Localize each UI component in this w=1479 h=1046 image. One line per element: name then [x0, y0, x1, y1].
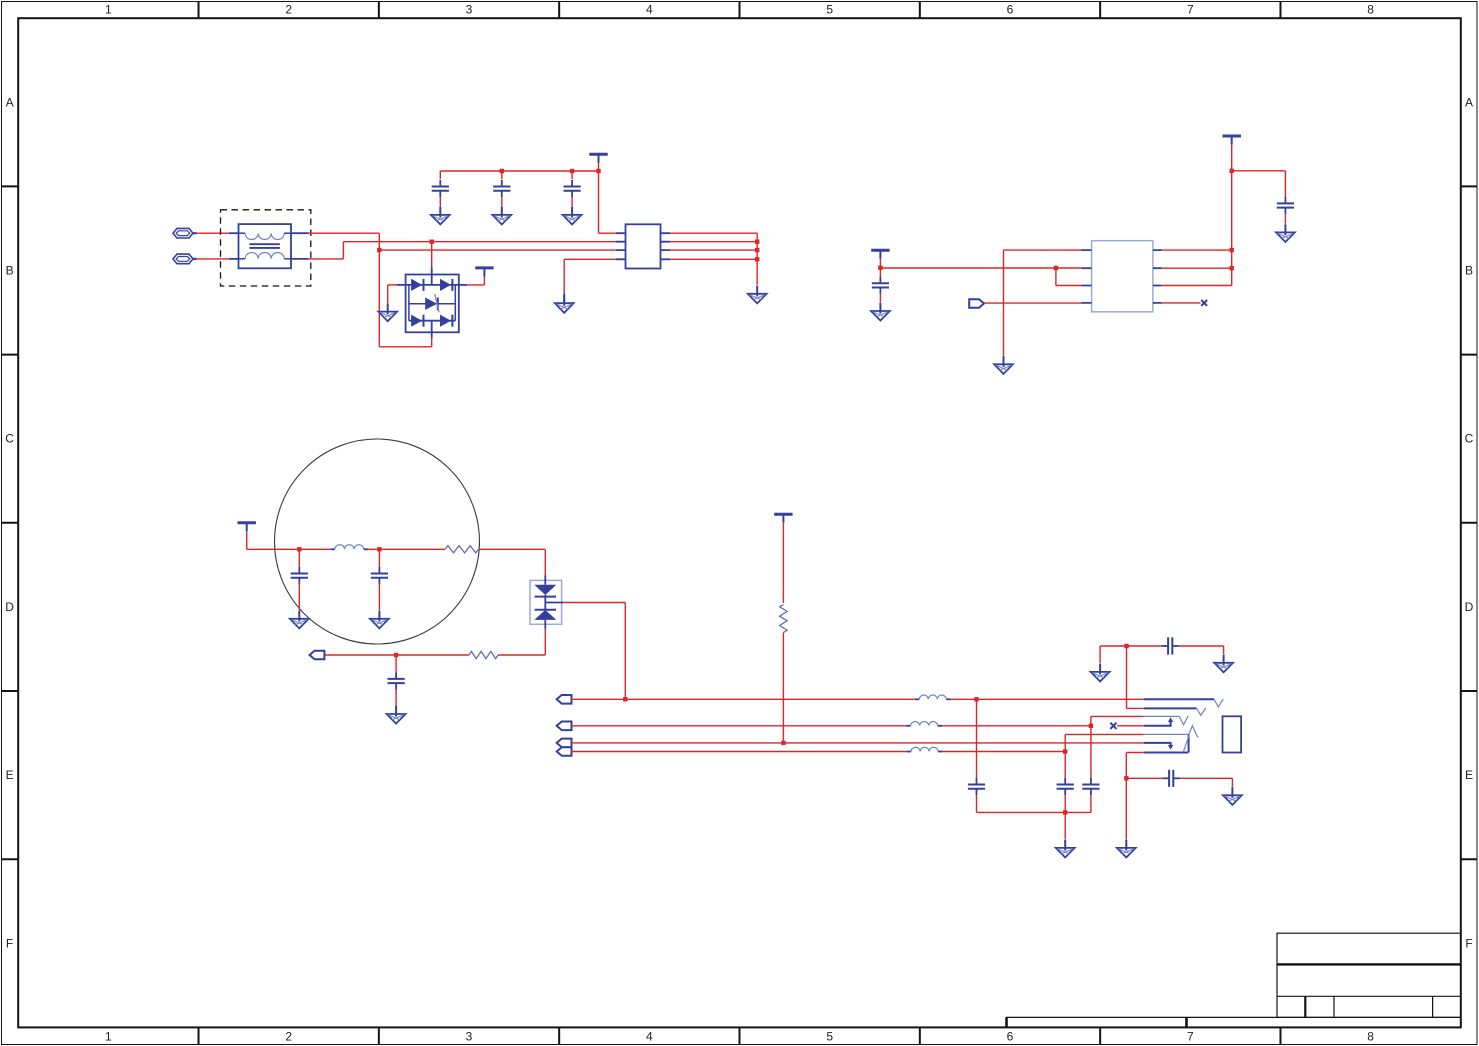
svg-text:4: 4	[646, 3, 653, 17]
wire rail drop to C2	[501, 171, 503, 179]
junction rail at power stem	[596, 169, 600, 173]
wire C10 to rail	[1064, 795, 1066, 812]
wire TVS mid drop to wire1	[624, 603, 626, 700]
wire U1 pin5 out	[670, 258, 757, 260]
port P3 signal 1	[557, 695, 572, 704]
pin stub FL1 pin3 (bottom right)	[291, 258, 309, 260]
wire C4 bottom lead	[879, 292, 881, 303]
pin stub FL1 pin4 (top right)	[291, 232, 309, 234]
connector CON1 pin L (AC line input)	[173, 228, 197, 238]
no-connect X on jack line4	[1110, 723, 1116, 729]
dashed enclosure around filter FL1	[221, 210, 311, 286]
wire shield node left	[1100, 645, 1126, 647]
power flag VFILT above rail	[589, 154, 607, 163]
no-connect X at U2 pin5	[1201, 300, 1207, 306]
junction line7 node	[1124, 776, 1128, 780]
wire jack line7 drop	[1125, 753, 1127, 779]
junction rail at C3	[570, 169, 574, 173]
capacitor C11	[1082, 778, 1099, 795]
jack J1 tip contact V	[1214, 699, 1223, 707]
svg-text:1: 1	[105, 1030, 112, 1044]
wire node to C13	[1126, 777, 1163, 779]
pin stub FL1 pin1	[229, 232, 239, 234]
wire C2 bottom lead	[501, 197, 503, 206]
capacitor C12 series	[1162, 637, 1179, 654]
svg-text:8: 8	[1367, 1030, 1374, 1044]
svg-text:E: E	[6, 768, 14, 782]
wire U2 pin1 run	[1004, 249, 1082, 251]
wire VFILT corner to U1 pin1	[599, 232, 617, 234]
wire C9 to rail	[976, 795, 978, 812]
ground at C2	[492, 207, 511, 225]
wire R3 to wire3	[782, 633, 784, 743]
svg-text:1: 1	[105, 3, 112, 17]
svg-text:8: 8	[1367, 3, 1374, 17]
wire branch drop	[1055, 268, 1057, 286]
ground at BR1 minus	[378, 303, 397, 321]
wire VS stem	[246, 531, 248, 549]
junction VAUX node	[878, 266, 882, 270]
ground at C12	[1214, 655, 1233, 673]
wire node to jack line7	[1126, 752, 1144, 754]
svg-text:2: 2	[285, 1030, 292, 1044]
detail circle annotation	[275, 439, 480, 644]
junction at C7 tap	[377, 547, 381, 551]
inductor L2 in circle	[330, 545, 368, 550]
wire VREF stem	[782, 523, 784, 603]
wire line7 node ground drop	[1125, 778, 1127, 839]
wire VAUX to U2 pin2	[880, 267, 1081, 269]
power flag VIN top right	[1223, 136, 1241, 145]
wire riser to jack line3	[1091, 715, 1144, 717]
svg-text:B: B	[1465, 264, 1473, 278]
ground at U1 output bus	[748, 286, 767, 304]
ground below U2 pin1 wire	[994, 356, 1013, 374]
wire net N1 rail to U1 pin2	[343, 241, 616, 243]
junction wire2 at riser	[1089, 724, 1093, 728]
ground at C6	[290, 611, 309, 629]
junction net N1 at BR1 branch	[430, 240, 434, 244]
wire rail ground drop	[1064, 812, 1066, 839]
junction rail at C10	[1063, 810, 1067, 814]
junction VIN node	[1230, 169, 1234, 173]
capacitor C5	[1277, 197, 1294, 214]
port P4 signal 2	[557, 722, 572, 731]
wire VS node run	[247, 548, 330, 550]
ground at C8	[387, 706, 406, 724]
capacitor C3	[564, 180, 581, 197]
ground at C3	[563, 207, 582, 225]
wire3 port P5 to jack	[572, 742, 1144, 744]
pin stub BR1 AC top	[431, 268, 433, 275]
svg-text:B: B	[6, 264, 14, 278]
wire ground rail C9-C11	[977, 811, 1091, 813]
wire BR1 top feed	[431, 242, 433, 268]
regulator IC U1	[616, 224, 670, 268]
svg-text:3: 3	[466, 1030, 473, 1044]
port P6 signal 4	[557, 747, 572, 756]
svg-text:A: A	[1465, 95, 1473, 109]
wire C7 top lead	[378, 549, 380, 567]
wire shield drop to jack line2	[1126, 646, 1128, 708]
svg-text:4: 4	[646, 1030, 653, 1044]
wire power stem to rail	[598, 163, 600, 171]
pin stub BR1 AC bottom	[431, 332, 433, 338]
wire jack ring riser from line3	[1090, 716, 1092, 725]
jack J1 line1 (tip)	[1144, 698, 1214, 700]
jack J1 line3 (switch a)	[1144, 715, 1179, 717]
junction bus pin7	[755, 240, 759, 244]
wire R1 to TVS corner	[479, 548, 546, 550]
wire rail drop to C3	[571, 171, 573, 179]
junction shield node	[1124, 644, 1128, 648]
power flag VDC at BR1 plus	[475, 268, 493, 277]
converter IC U2	[1082, 241, 1162, 312]
wire C11 top lead	[1090, 726, 1092, 778]
svg-text:E: E	[1465, 768, 1473, 782]
power flag VAUX left	[871, 250, 889, 259]
wire riser to jack line5	[1065, 733, 1144, 735]
port P1 enable input	[969, 299, 984, 308]
wire C12 ground drop	[1223, 646, 1225, 654]
wire R2 to port	[324, 654, 469, 656]
wire U1 pin4 run	[564, 258, 616, 260]
junction R3 at wire3	[781, 741, 785, 745]
power flag VS in circle	[238, 523, 256, 532]
wire BR1 minus drop	[387, 285, 389, 303]
svg-text:C: C	[1465, 432, 1474, 446]
wire C13 to corner	[1180, 777, 1233, 779]
wire shield node to jack line2	[1127, 707, 1144, 709]
wire NC stub to jack line4	[1117, 725, 1144, 727]
svg-text:6: 6	[1007, 3, 1014, 17]
svg-text:7: 7	[1187, 1030, 1194, 1044]
inductor L4 on wire2	[906, 722, 942, 726]
wire TVS bottom run left	[498, 654, 545, 656]
junction wire1 TVS branch	[623, 697, 627, 701]
ground at C4	[871, 303, 890, 321]
wire power riser	[483, 276, 485, 285]
wire C5 bottom lead	[1284, 214, 1286, 224]
wire C4 top lead	[879, 268, 881, 280]
wire C8 bottom lead	[395, 690, 397, 707]
bidirectional TVS D1	[530, 576, 563, 629]
resistor R2 in circle section	[469, 651, 498, 658]
junction branch to U2 pin3	[1054, 266, 1058, 270]
wire C5 top lead drop	[1284, 171, 1286, 198]
wire cap rail C1-C3	[440, 170, 598, 172]
wire1 L3 to jack tip	[951, 698, 1144, 700]
capacitor C13 series	[1163, 770, 1180, 787]
jack J1 ring contact V	[1197, 708, 1206, 715]
wire net N1 from FL1 to corner	[309, 258, 344, 260]
wire P1 to U2 pin4	[984, 302, 1082, 304]
svg-text:5: 5	[826, 1030, 833, 1044]
power flag VREF above R3	[774, 514, 792, 523]
wire net L1 bottom run to BR1	[379, 346, 431, 348]
junction at C8 tap	[394, 653, 398, 657]
jack J1 line7 (sleeve)	[1144, 752, 1188, 754]
wire U1 pin7 out	[670, 241, 757, 243]
port P2 sense line	[310, 651, 325, 660]
wire C9 top lead from wire1	[976, 699, 978, 778]
jack J1 switch-b contact caret	[1189, 726, 1199, 737]
svg-text:A: A	[6, 95, 14, 109]
svg-text:D: D	[5, 600, 14, 614]
capacitor C10	[1057, 778, 1074, 795]
ground at C5	[1276, 224, 1295, 242]
wire U2 pin1 ground drop	[1003, 250, 1005, 356]
wire cap rail drop to C1	[439, 171, 441, 179]
junction rail at C2	[500, 169, 504, 173]
capacitor C9	[968, 778, 985, 795]
capacitor C7	[371, 567, 388, 584]
port P5 signal 3	[557, 739, 572, 748]
wire branch to U2 pin3	[1056, 285, 1082, 287]
junction net L1 at rail	[377, 248, 381, 252]
svg-text:C: C	[5, 432, 14, 446]
wire U1 pin4 drop	[563, 259, 565, 293]
wire VIN bus down	[1231, 171, 1233, 286]
svg-text:7: 7	[1187, 3, 1194, 17]
capacitor C6	[291, 567, 308, 584]
resistor R1 in circle	[445, 546, 478, 553]
jack J1 line2 (ring)	[1144, 707, 1197, 709]
common-mode choke FL1	[239, 224, 292, 268]
connector CON2 pin N (AC neutral input)	[173, 254, 197, 264]
bridge rectifier BR1	[406, 275, 459, 333]
wire C8 top lead	[395, 655, 397, 673]
wire U1 pin6 out	[670, 249, 757, 251]
wire C7 bottom lead	[378, 582, 380, 610]
wire TVS bottom drop	[544, 629, 546, 655]
wire C11 to rail	[1090, 795, 1092, 812]
wire2 L4 to junction	[942, 725, 1091, 727]
junction bus pin6	[755, 248, 759, 252]
wire C1 bottom lead	[439, 197, 441, 206]
capacitor C1	[432, 180, 449, 197]
svg-text:6: 6	[1007, 1030, 1014, 1044]
jack J1 line4 with up arrow	[1144, 717, 1173, 726]
junction wire1 at C9	[974, 697, 978, 701]
svg-text:3: 3	[466, 3, 473, 17]
wire C10 top lead	[1064, 752, 1066, 779]
ground at U1 pin4	[555, 295, 574, 313]
jack J1 lever diagonal	[1183, 735, 1189, 752]
wire U2 pin6 to bus corner	[1162, 285, 1232, 287]
svg-text:5: 5	[826, 3, 833, 17]
inductor L5 on wire4	[907, 747, 943, 751]
pin stub BR1 plus (right)	[459, 284, 467, 286]
junction bus pin5	[755, 257, 759, 261]
ground at bottom rail	[1056, 840, 1075, 858]
jack J1 switch-a contact V	[1179, 716, 1188, 725]
wire TVS top feed	[544, 549, 546, 575]
wire BR1 minus to ground corner	[388, 284, 397, 286]
jack J1 sleeve riser	[1188, 735, 1190, 753]
wire4 L5 to C10 node	[943, 751, 1066, 753]
wire VAUX stem	[879, 259, 881, 268]
wire4 port P6 to L5	[572, 751, 907, 753]
svg-text:2: 2	[285, 3, 292, 17]
pin stub BR1 minus (left)	[396, 284, 405, 286]
wire TVS mid to corner	[563, 602, 625, 604]
wire2 port P4 to L4	[572, 725, 907, 727]
svg-text:F: F	[1465, 936, 1472, 950]
wire U1 pin4 ground stem	[563, 294, 565, 303]
jack J1 body	[1223, 716, 1242, 752]
svg-text:F: F	[6, 936, 13, 950]
ground at shield left	[1091, 664, 1110, 682]
junction wire4 at C10	[1063, 749, 1067, 753]
junction bus U2 pin8	[1230, 248, 1234, 252]
wire BR1 plus to power riser	[467, 284, 484, 286]
wire L2 to R1	[368, 548, 446, 550]
wire U2 pin7 to bus	[1162, 267, 1232, 269]
wire U1 output bus vertical	[756, 233, 758, 285]
wire1 port P3 to L3	[572, 698, 915, 700]
wire VFILT down to U1 pin1	[598, 171, 600, 233]
wire shield node drop left	[1099, 646, 1101, 663]
wire C6 bottom lead	[298, 582, 300, 610]
inductor L3 on wire1	[915, 695, 951, 699]
wire U2 pin5 stub	[1162, 302, 1201, 304]
wire C3 bottom lead	[571, 197, 573, 206]
wire net L1 from FL1 to corner	[309, 232, 380, 234]
wire jack sw riser from line5	[1064, 734, 1066, 751]
capacitor C8	[388, 672, 405, 689]
ground at C7	[370, 611, 389, 629]
wire net L1 rail to U1 pin3	[379, 249, 616, 251]
ground at C13	[1223, 787, 1242, 805]
wire shield to C12	[1127, 645, 1162, 647]
capacitor C4	[872, 277, 889, 294]
jack J1 line6 with down arrow	[1144, 743, 1173, 750]
wire CON2 to FL1 pin2	[197, 258, 230, 260]
resistor R3 vertical	[780, 605, 788, 633]
ground at line7 node	[1117, 840, 1136, 858]
wire U1 pin8 out	[670, 232, 757, 234]
wire CON1 to FL1 pin1	[197, 232, 230, 234]
svg-text:D: D	[1465, 600, 1474, 614]
wire VIN stem	[1231, 145, 1233, 171]
jack J1 line5 (switch b)	[1144, 733, 1189, 735]
wire C6 top lead	[298, 549, 300, 567]
junction bus U2 pin7	[1230, 266, 1234, 270]
wire net N1 riser	[342, 242, 344, 259]
wire VIN node to C5 corner	[1232, 170, 1286, 172]
capacitor C2	[493, 180, 510, 197]
junction at C6 tap	[297, 547, 301, 551]
wire U2 pin8 to bus	[1162, 249, 1232, 251]
wire BR1 bottom drop	[431, 338, 433, 346]
wire C13 ground drop	[1231, 778, 1233, 787]
wire net L1 vertical drop	[378, 233, 380, 347]
pin stub FL1 pin2	[229, 258, 239, 260]
wire C12 to corner	[1179, 645, 1224, 647]
ground at C1	[431, 207, 450, 225]
